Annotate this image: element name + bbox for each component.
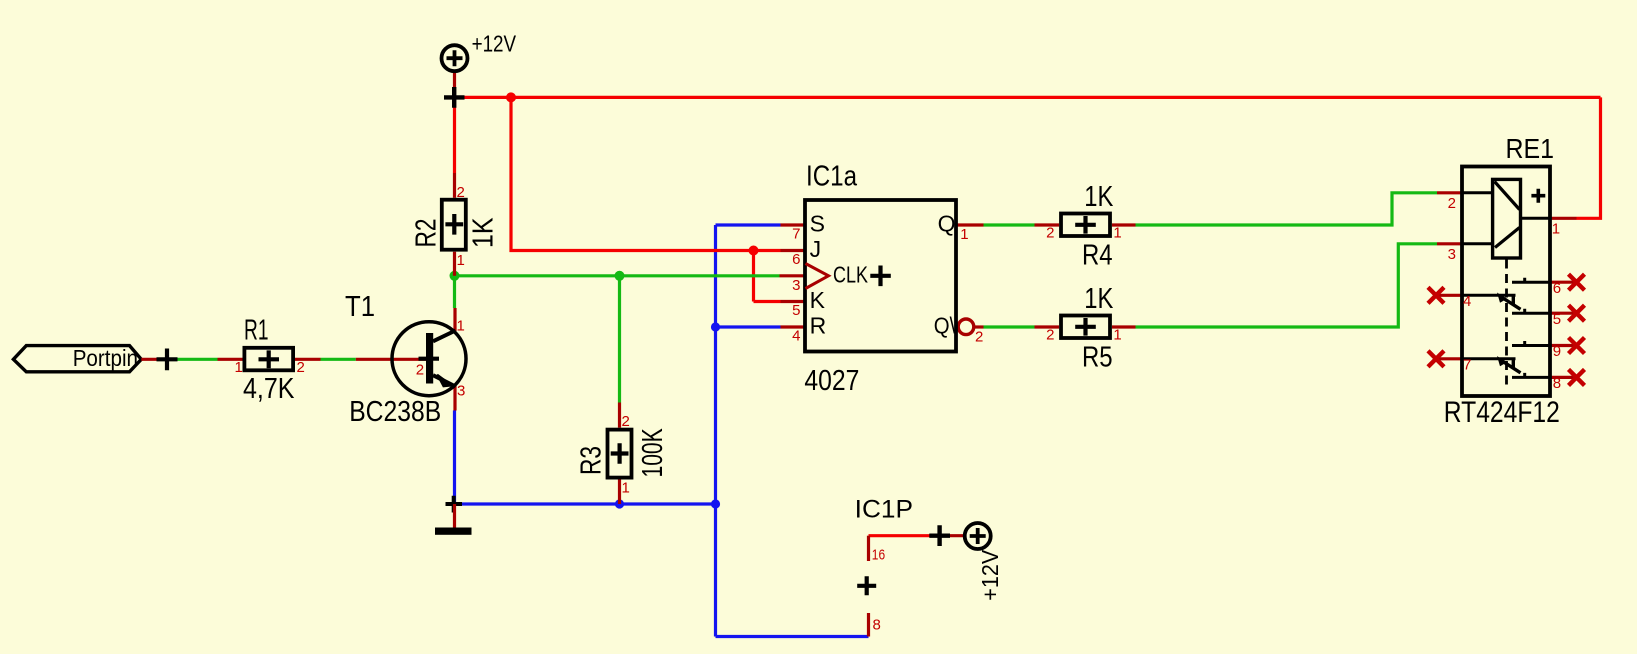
wire: +12V rail right drop to relay pin1 [1577,97,1601,218]
ground symbol: pin [453,504,456,528]
relay RE1: pin 3 stub [1437,242,1462,245]
resistor R1 body [244,348,293,371]
connector Portpin flag [13,346,141,372]
supply +12V top: pin [453,72,456,98]
resistor R1 origin cross [259,350,280,368]
svg-text:IC1a: IC1a [806,161,858,193]
svg-text:2: 2 [975,328,983,345]
pin: R3 pin1 [618,479,621,504]
svg-text:R3: R3 [576,446,608,475]
svg-text:RT424F12: RT424F12 [1444,396,1560,429]
op IC1a: origin cross [870,266,891,287]
svg-text:1K: 1K [468,217,500,248]
pin: R2 pin2 [453,173,456,198]
resistor R4 body [1061,214,1110,237]
svg-text:9: 9 [1553,343,1561,360]
svg-text:2: 2 [1046,225,1054,242]
relay RE1: contact pin 5 stub [1550,312,1577,315]
wire: green Qbar to R5 [984,325,1035,328]
connector Portpin pin cross [157,349,178,371]
power gate IC1P: origin cross [857,576,876,595]
resistor R5 origin cross [1075,318,1096,336]
transistor T1: collector pin [453,308,456,331]
relay RE1: coil diagonal lower [1495,228,1520,248]
op IC1a: pins S J CLK K R stubs [780,225,806,327]
resistor R4 origin cross [1075,216,1096,234]
relay RE1: common 7 line [1462,357,1516,360]
resistor R3 origin cross [611,443,629,464]
pin: R1 pin1 [218,358,243,361]
resistor R2 body [442,200,466,250]
svg-text:J: J [810,236,822,262]
svg-text:+12V: +12V [977,549,1003,601]
svg-text:3: 3 [457,383,465,400]
svg-text:IC1P: IC1P [855,496,913,524]
relay RE1: common 4 line [1462,294,1516,297]
svg-text:Q\: Q\ [934,312,956,338]
relay RE1: contact pin 8 stub [1550,376,1577,379]
wire: blue net S-R-GND vertical x=715.5 [714,225,717,637]
relay RE1: coil diagonal upper [1495,182,1520,210]
junction: green at (619.5,275.8) [615,271,625,281]
relay RE1: contact pin 7 stub [1437,357,1462,360]
op IC1a: output pin Qbar stub [974,325,984,328]
relay RE1: contact 6 line [1512,278,1550,283]
resistor R5 body [1061,316,1110,339]
svg-text:8: 8 [1553,375,1561,392]
svg-text:1K: 1K [1084,283,1114,315]
svg-text:S: S [810,210,825,236]
relay RE1: wiper arm pole1 [1500,295,1521,310]
svg-text:2: 2 [1448,195,1456,212]
supply +12V right: pin cross [929,525,950,546]
op IC1a: Qbar inversion bubble [958,319,974,335]
no-connect X on pin 7 [1428,351,1444,367]
svg-text:2: 2 [622,413,630,430]
pin: R3 pin2 [618,403,621,428]
pin: R5 pin1 [1112,325,1136,328]
no-connect X on pin 9 [1569,338,1585,354]
wire: green Q to R4 [984,223,1035,226]
pin: R5 pin2 [1035,325,1060,328]
relay RE1: contact pin 6 stub [1550,281,1577,284]
svg-text:5: 5 [1553,311,1561,328]
wire: blue S row to IC pin S [716,223,781,226]
resistor R2 origin cross [445,214,463,235]
relay RE1: coil lead pin1 [1521,217,1551,220]
connector Portpin pin [141,358,167,361]
svg-text:1: 1 [622,480,630,497]
svg-text:+12V: +12V [472,31,517,57]
relay RE1: contact 9 line [1512,341,1550,346]
svg-text:R: R [810,312,827,338]
svg-text:100K: 100K [637,428,669,478]
svg-text:R4: R4 [1082,240,1113,272]
no-connect X on pin 5 [1569,305,1585,321]
svg-text:6: 6 [1553,280,1561,297]
transistor T1: emitter pin [453,386,456,411]
no-connect X on pin 6 [1569,274,1585,290]
wire: green collector node down to T1 [453,276,456,308]
svg-text:8: 8 [873,617,881,634]
ground symbol: bar [435,528,472,535]
relay RE1: wiper arrowhead pole2 [1497,356,1507,366]
op IC1a: clock triangle [806,264,829,289]
wire: green drop to R3 [618,276,621,403]
svg-text:1: 1 [235,359,243,376]
svg-text:1: 1 [1113,225,1121,242]
junction: blue at (715.5,327) [711,322,720,331]
no-connect X on pin 8 [1569,369,1585,385]
svg-text:K: K [810,287,826,313]
power gate IC1P: pin 8 stub [867,613,870,637]
svg-text:1: 1 [1552,221,1560,238]
svg-text:1: 1 [960,226,968,243]
wire: green R1 to T1 base [321,358,356,361]
svg-text:2: 2 [457,184,465,201]
transistor T1: circle [392,322,466,396]
resistor R3 body [608,430,632,478]
pin: R2 pin1 [453,252,456,276]
svg-text:3: 3 [792,277,800,294]
wire: +12V rail vertical from symbol to R2 [453,97,456,173]
svg-text:16: 16 [872,547,885,564]
relay RE1: coil rectangle [1493,179,1521,258]
transistor T1: collector line [433,331,456,342]
svg-text:6: 6 [792,251,800,268]
wire: red IC1P supply to +12V symbol [869,534,940,537]
wire: green R5 to relay pin3 [1136,244,1438,327]
relay RE1: polarity plus [1531,189,1545,203]
transistor T1: emitter arrow [437,375,452,387]
wire: blue ground row y=504 [455,502,716,505]
svg-text:R2: R2 [410,219,442,248]
svg-text:2: 2 [297,359,305,376]
svg-text:Q: Q [938,210,956,236]
transistor T1: origin cross [419,348,440,369]
svg-text:R1: R1 [244,314,269,346]
svg-text:4027: 4027 [804,365,859,397]
transistor T1: base pin [356,358,430,361]
svg-text:4: 4 [792,328,800,345]
supply +12V right: pin [940,534,965,537]
svg-text:5: 5 [792,302,800,319]
junction: red at (753.5,250.5) [749,246,759,256]
no-connect X on pin 4 [1428,287,1444,303]
wire: blue bottom row to IC1P pin 8 [716,635,869,638]
wire: red J row into IC pin J [754,249,781,252]
svg-text:BC238B: BC238B [349,396,441,428]
op IC1a: body box [805,200,956,352]
wire: red J-K tie vertical x=753.5 [752,251,755,302]
svg-text:1: 1 [457,252,465,269]
junction: blue at (715.5,504) [711,499,720,508]
wire: red branch x=511 down to J row [511,97,754,250]
relay RE1: pin 1 stub [1550,217,1577,220]
relay RE1: contact 8 line [1512,373,1550,378]
relay RE1: coil lead pin2 [1462,191,1493,194]
supply +12V top: circle symbol [442,45,468,71]
svg-text:3: 3 [1448,246,1456,263]
wire: red K row into IC pin K [754,300,781,303]
svg-text:Portpin: Portpin [73,345,138,371]
svg-text:2: 2 [416,361,424,378]
pin: R1 pin2 [295,358,321,361]
svg-text:T1: T1 [345,291,375,323]
transistor T1: emitter line [433,375,456,386]
svg-text:R5: R5 [1082,342,1113,374]
wire: +12V top rail horizontal y=97.4 [455,96,1601,99]
relay RE1: coil lead pin3 [1462,242,1493,245]
junction: red at (511,97.4) [506,92,516,102]
power gate IC1P: pin 16 stub [867,536,870,561]
junction: blue at (619.5,504) [615,499,624,508]
svg-text:4: 4 [1463,293,1471,310]
junction: green at (454.5,275.8) [450,271,460,281]
supply +12V top: pin cross [444,87,465,108]
ground symbol: pin cross [446,496,463,513]
svg-text:4,7K: 4,7K [243,373,295,405]
wire: green collector row y=275.8 to CLK [455,274,780,277]
wire: green R4 to relay pin2 [1136,193,1438,225]
svg-text:1K: 1K [1084,181,1114,213]
relay RE1: pin 2 stub [1437,191,1462,194]
svg-text:2: 2 [1046,327,1054,344]
relay RE1: mechanical dashed link [1505,260,1508,387]
supply +12V right: circle symbol [965,523,991,549]
svg-text:CLK: CLK [833,261,869,287]
relay RE1: contact pin 4 stub [1437,294,1462,297]
relay RE1: wiper arrowhead pole1 [1497,293,1507,303]
svg-text:RE1: RE1 [1506,133,1555,164]
wire: blue emitter to ground [453,411,456,505]
svg-text:7: 7 [1463,356,1471,373]
pin: R4 pin2 [1035,223,1060,226]
op IC1a: output pin Q stub [956,223,984,226]
relay RE1: body box [1462,167,1550,397]
relay RE1: wiper arm pole2 [1500,358,1521,373]
svg-text:7: 7 [792,226,800,243]
transistor T1: base bar [426,333,433,384]
relay RE1: contact pin 9 stub [1550,344,1577,347]
wire: blue R row to IC pin R [716,325,781,328]
wire: green Portpin to R1 [167,358,217,361]
svg-text:1: 1 [457,318,465,335]
pin: R4 pin1 [1112,223,1136,226]
svg-text:1: 1 [1113,327,1121,344]
relay RE1: contact 5 line [1512,309,1550,314]
